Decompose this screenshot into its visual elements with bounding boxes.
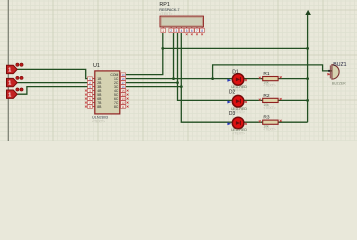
U1 pin 8C <box>114 105 126 109</box>
U1 pin 8B <box>88 105 103 109</box>
U1 pin 7C <box>114 101 126 105</box>
wire branch from D1 row to buzzer pin 1 <box>213 65 332 79</box>
RP1 pin 3 number box <box>174 28 179 33</box>
svg-text:1: 1 <box>162 29 164 33</box>
RP1 pin 1 number box <box>161 28 166 33</box>
svg-text:4: 4 <box>181 29 183 33</box>
U1 pin 4C <box>114 89 126 93</box>
svg-text:<TEXT>: <TEXT> <box>232 132 245 136</box>
svg-text:7: 7 <box>196 29 198 33</box>
U1 pin 5C <box>114 93 126 97</box>
svg-text:D3: D3 <box>229 111 236 117</box>
U1 pin 2C <box>114 81 126 85</box>
U1 pin 6C <box>114 97 126 101</box>
unconnected pin mark <box>127 94 129 96</box>
pin end marks <box>259 99 261 101</box>
junction dots <box>161 47 164 50</box>
svg-text:D1: D1 <box>232 70 239 76</box>
U1 pin 1C <box>114 77 126 81</box>
RP1 pin 6 number box <box>190 28 195 33</box>
unconnected pin mark <box>85 90 87 92</box>
LED anode marker <box>227 79 231 82</box>
U1 pin 2B <box>88 81 103 85</box>
svg-text:R2: R2 <box>263 93 269 99</box>
U1 pin 6B <box>88 97 103 101</box>
svg-text:<TEXT>: <TEXT> <box>263 128 275 132</box>
RP1 pin 8 number box <box>200 28 205 33</box>
unconnected pin mark <box>186 33 188 35</box>
wire RP1 pin3 pull-up down then right along D2 row <box>178 33 308 100</box>
svg-text:D2: D2 <box>229 90 236 96</box>
wire LOGICSTATE 3 to U1 pin 3B <box>17 87 88 95</box>
LED D2 <box>232 95 244 107</box>
svg-text:<TEXT>: <TEXT> <box>159 12 172 16</box>
logic state input 1 <box>7 63 24 74</box>
RP1 pin 4 number box <box>179 28 184 33</box>
svg-text:BUZZER: BUZZER <box>332 81 346 85</box>
U1 pin 3C <box>114 85 126 89</box>
U1 pin 1B <box>88 77 103 81</box>
svg-text:R1: R1 <box>263 71 269 77</box>
U1 pin 7B <box>88 101 103 105</box>
svg-text:2: 2 <box>170 29 172 33</box>
pin end mark <box>245 101 247 103</box>
sheet border <box>7 0 9 141</box>
wire U1 2C output to D2 column <box>126 82 178 84</box>
unconnected pin mark <box>85 98 87 100</box>
svg-text:BUZ1: BUZ1 <box>333 62 346 68</box>
resistor pack RP1 body <box>160 16 203 27</box>
RP1 pin 7 number box <box>195 28 200 33</box>
resistor R1 <box>263 77 278 81</box>
U1 pin 3B <box>88 85 103 89</box>
power terminal VCC <box>306 11 311 15</box>
svg-text:3: 3 <box>175 29 177 33</box>
svg-text:U1: U1 <box>93 63 100 69</box>
svg-text:8: 8 <box>201 29 203 33</box>
RP1 pin stubs <box>163 27 202 28</box>
pin end marks <box>259 120 261 122</box>
wire power vertical from VCC arrow down to D3 row <box>307 13 309 122</box>
resistor R3 <box>263 120 278 124</box>
unconnected pin mark <box>127 98 129 100</box>
wire U1 1C output row through D1 and R1 to power column <box>126 78 308 80</box>
wire VCC net: RP1 pin1 down, left into U1 COM pin <box>126 33 163 75</box>
LED anode marker <box>227 101 231 104</box>
unconnected pin mark <box>127 102 129 104</box>
RP1 pin 5 number box <box>184 28 189 33</box>
logic state input 2 <box>7 76 24 87</box>
U1 pin 5B <box>88 93 103 97</box>
RP1 pin 2 number box <box>169 28 174 33</box>
resistor R2 <box>263 98 278 102</box>
svg-text:8B: 8B <box>97 105 102 109</box>
pin end mark <box>245 123 247 125</box>
unconnected pin mark <box>127 106 129 108</box>
IC U1 ULN2803 body <box>95 71 120 114</box>
wire LOGICSTATE 1 to U1 pin 1B <box>17 69 88 78</box>
wire VCC rail to power vertical <box>163 47 308 49</box>
logic state input 3 <box>7 88 24 99</box>
svg-text:6: 6 <box>191 29 193 33</box>
svg-text:11: 11 <box>122 105 125 109</box>
unconnected pin mark <box>191 33 193 35</box>
unconnected pin mark <box>85 106 87 108</box>
svg-text:5: 5 <box>186 29 188 33</box>
LED anode marker <box>227 122 231 125</box>
unconnected pin mark <box>201 33 203 35</box>
pin end mark <box>245 79 247 81</box>
wire RP1 pin2 pull-up down to D1 row <box>173 33 175 79</box>
pin end marks <box>259 77 261 79</box>
LED D3 <box>232 117 244 129</box>
svg-text:8C: 8C <box>114 105 119 109</box>
unconnected pin mark <box>127 90 129 92</box>
unconnected pin mark <box>85 102 87 104</box>
unconnected pin mark <box>196 33 198 35</box>
svg-text:<TEXT>: <TEXT> <box>263 106 275 110</box>
unconnected pin mark <box>85 94 87 96</box>
LED D1 <box>232 74 244 86</box>
wire RP1 pin4 pull-up down then right along D3 row <box>181 33 307 122</box>
buzzer BUZ1 <box>327 65 339 79</box>
wire U1 3C output to D3 column <box>126 86 182 88</box>
svg-text:<TEXT>: <TEXT> <box>263 83 275 87</box>
svg-text:<TEXT>: <TEXT> <box>92 120 105 124</box>
wire LOGICSTATE 2 to U1 pin 2B <box>17 82 88 84</box>
U1 pin COM <box>110 73 125 77</box>
U1 pin 4B <box>88 89 103 93</box>
svg-text:R3: R3 <box>263 115 269 121</box>
